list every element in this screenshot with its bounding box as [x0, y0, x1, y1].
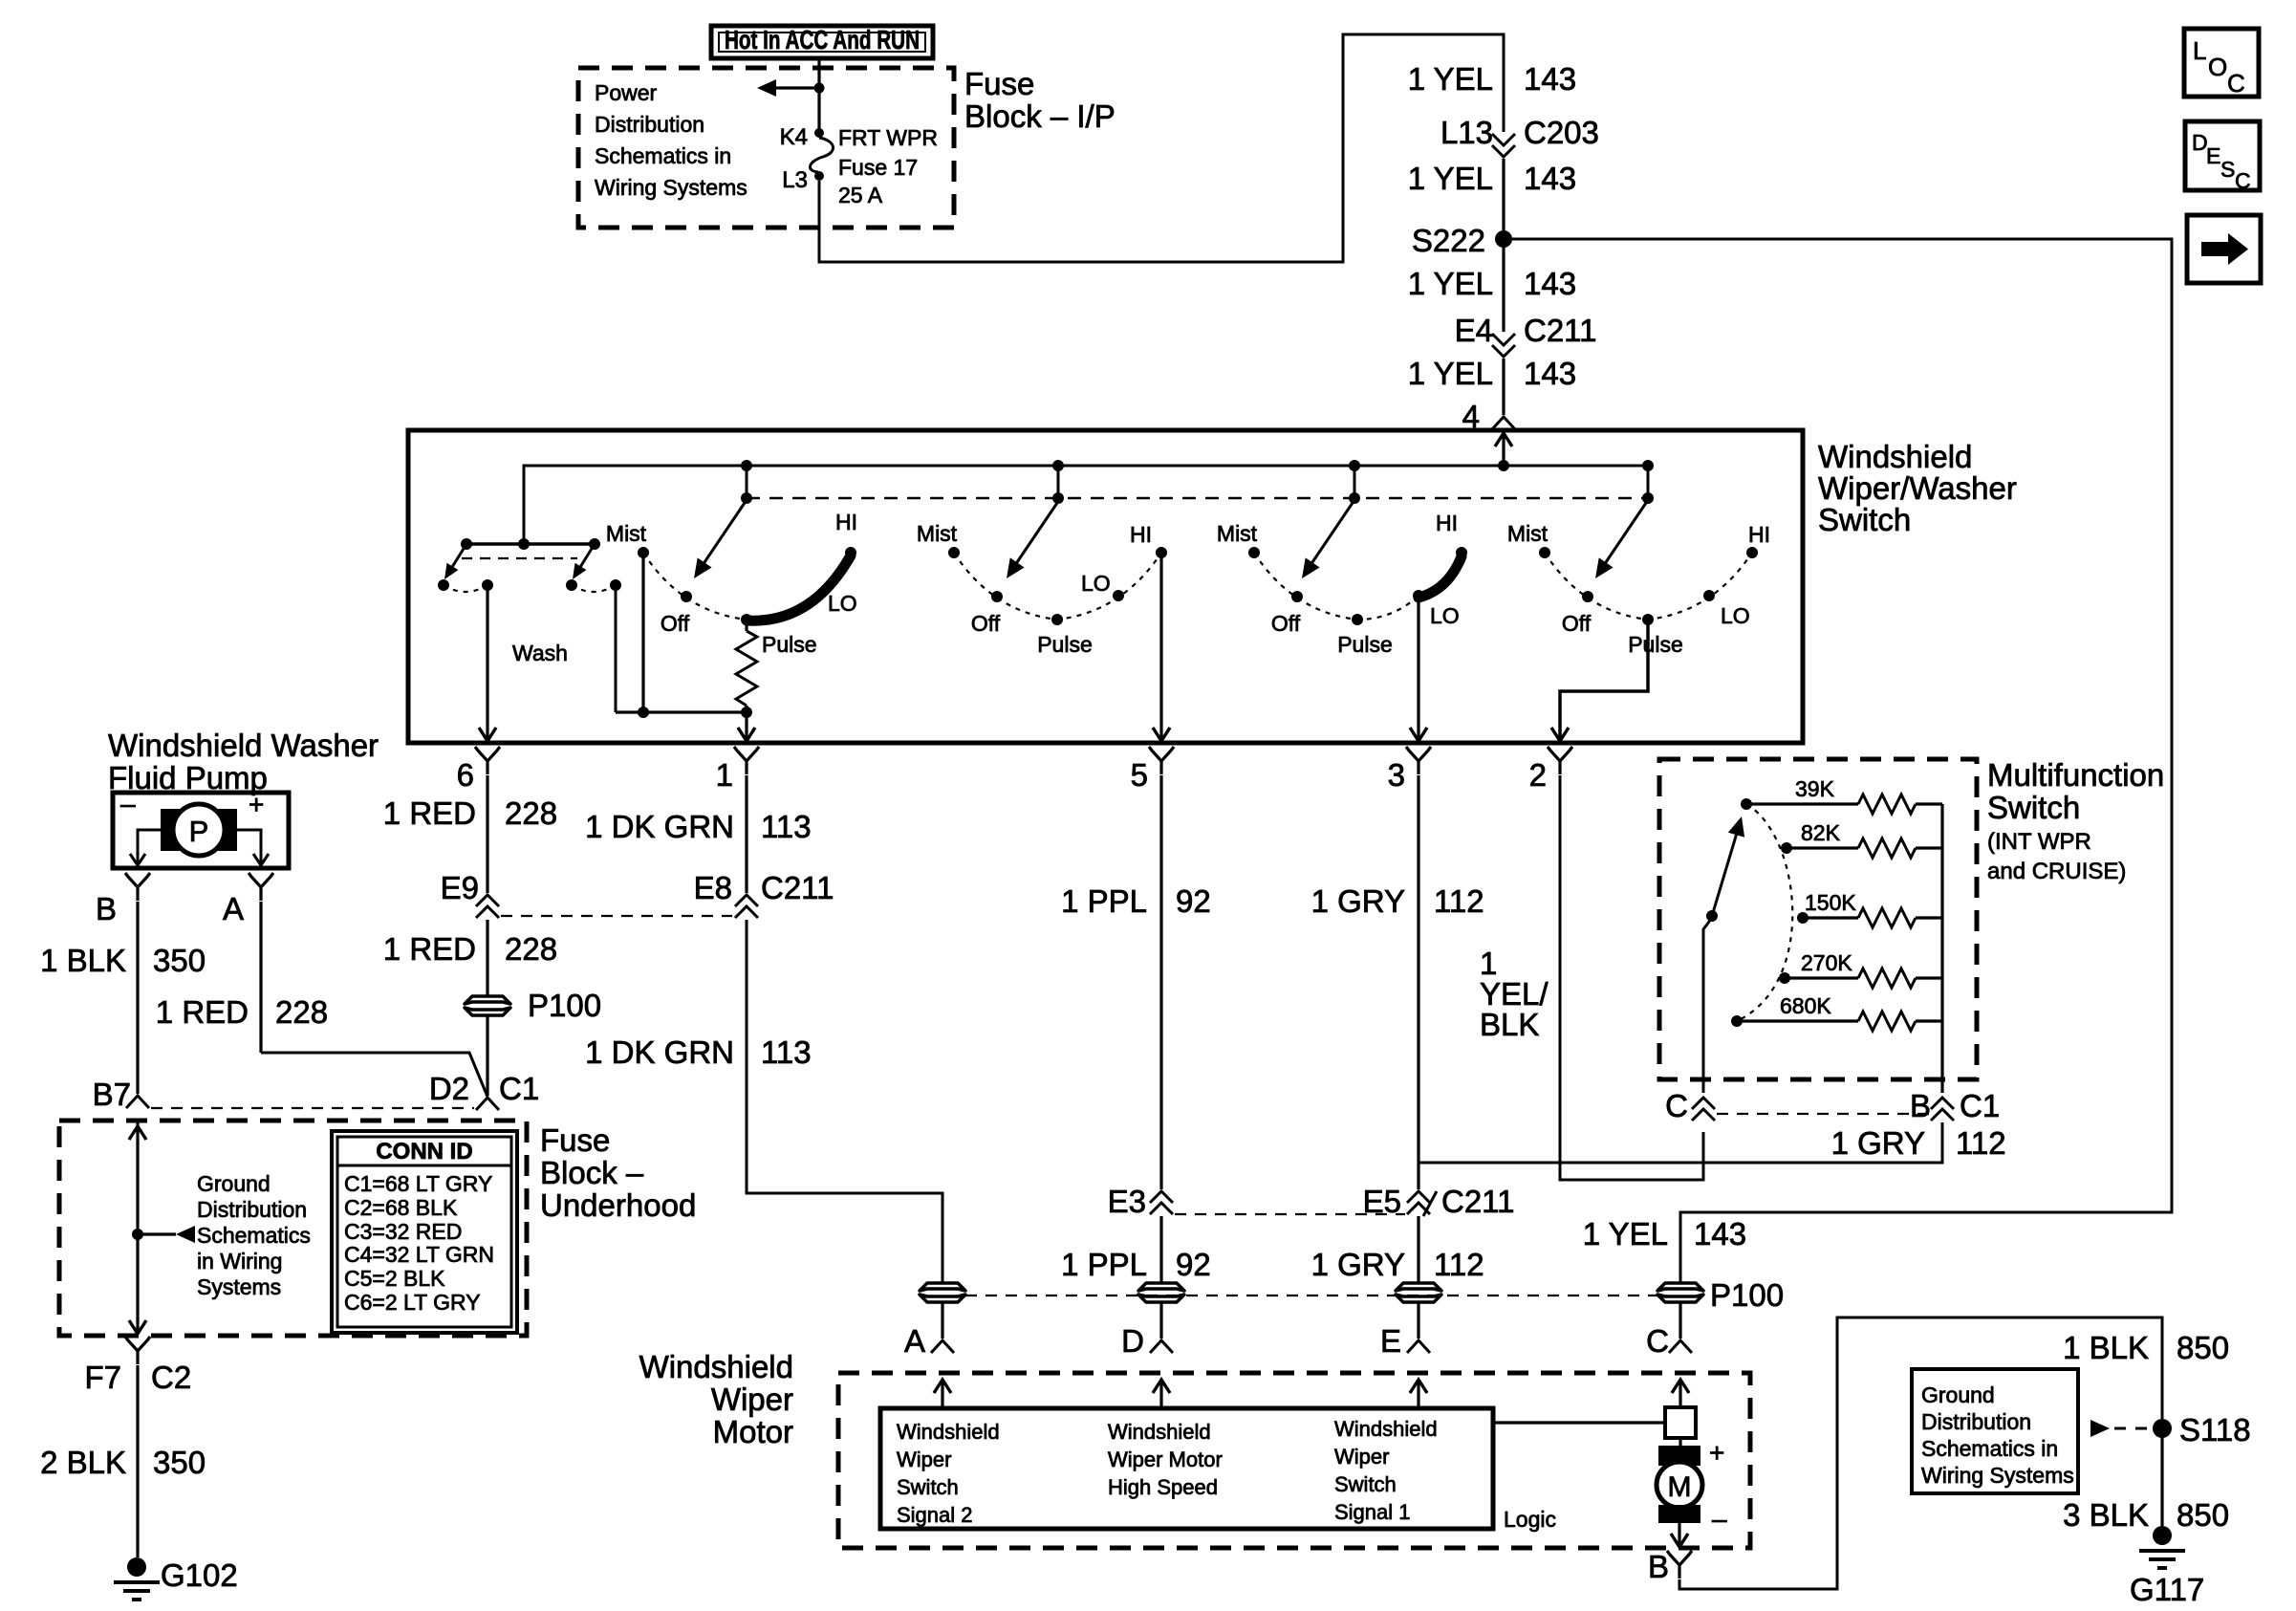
wire pin 6 red lead: [486, 775, 488, 893]
svg-text:P100: P100: [528, 988, 601, 1023]
svg-text:B7: B7: [93, 1077, 131, 1112]
wire pin 2 yel blk: [1560, 775, 1703, 1180]
dashed bulkhead pass-through line P100: [965, 1295, 1657, 1296]
wire E into motor: [1417, 1303, 1419, 1339]
svg-text:Distribution: Distribution: [595, 112, 704, 137]
switch section 1 collector wire: [616, 710, 747, 713]
reference arrow to ground distribution note: [138, 1232, 176, 1235]
svg-text:112: 112: [1434, 1247, 1484, 1282]
svg-text:and CRUISE): and CRUISE): [1987, 859, 2126, 884]
ground G102: [127, 1557, 146, 1577]
wire pump B ground lead: [136, 902, 139, 1094]
svg-text:L: L: [2193, 36, 2206, 65]
svg-text:C: C: [1646, 1323, 1669, 1359]
svg-text:Pulse: Pulse: [1037, 632, 1093, 657]
svg-text:1 PPL: 1 PPL: [1061, 883, 1147, 919]
svg-text:Systems: Systems: [197, 1274, 281, 1299]
wire hot feed into fuse: [817, 58, 820, 130]
svg-text:Mist: Mist: [606, 521, 647, 546]
svg-text:LO: LO: [1721, 603, 1750, 628]
wash switch right arm: [577, 544, 595, 572]
wire 1 YEL segment: [1502, 159, 1505, 230]
svg-text:C: C: [1665, 1088, 1688, 1123]
svg-text:850: 850: [2177, 1330, 2229, 1365]
svg-text:Schematics: Schematics: [197, 1223, 311, 1248]
svg-text:O: O: [2208, 53, 2227, 81]
wire S222 down to C211: [1502, 239, 1505, 332]
svg-text:+: +: [1709, 1438, 1724, 1468]
svg-text:D: D: [1121, 1323, 1144, 1359]
svg-text:C2: C2: [151, 1360, 191, 1395]
svg-text:C2=68 BLK: C2=68 BLK: [344, 1195, 458, 1220]
svg-text:Windshield: Windshield: [1334, 1417, 1438, 1441]
svg-text:E: E: [2206, 143, 2220, 168]
svg-text:High Speed: High Speed: [1108, 1475, 1218, 1499]
svg-text:Wiper/Washer: Wiper/Washer: [1818, 470, 2017, 506]
dashed connector face E3 to E5: [1175, 1213, 1405, 1215]
svg-text:Windshield: Windshield: [639, 1349, 793, 1384]
svg-text:LO: LO: [828, 591, 857, 616]
switch section 1 selector arrow: [701, 500, 747, 568]
svg-text:Distribution: Distribution: [1921, 1409, 2031, 1434]
svg-text:G102: G102: [161, 1557, 238, 1593]
svg-text:1 RED: 1 RED: [156, 994, 249, 1030]
motor logic box: [880, 1408, 1493, 1529]
grommet on motor D wire: [1138, 1283, 1184, 1291]
svg-text:Windshield: Windshield: [1818, 439, 1972, 474]
switch pin 4 end connector: [1492, 417, 1515, 429]
svg-text:2 BLK: 2 BLK: [40, 1445, 126, 1480]
wire red to fuse block C1: [486, 1016, 488, 1096]
wire to ground G102: [136, 1365, 139, 1557]
dashed connector face C to B: [1717, 1113, 1929, 1115]
wire pump A to fuse block connector: [261, 1053, 487, 1097]
svg-text:350: 350: [153, 1445, 206, 1480]
switch section 2 selector arrow: [1013, 500, 1059, 568]
svg-text:Pulse: Pulse: [1337, 632, 1393, 657]
svg-text:Schematics in: Schematics in: [1921, 1436, 2058, 1461]
svg-text:Distribution: Distribution: [197, 1197, 307, 1222]
svg-text:–: –: [120, 789, 136, 818]
wire red to P100: [486, 920, 488, 995]
svg-text:1 RED: 1 RED: [383, 795, 476, 831]
svg-text:1 YEL: 1 YEL: [1408, 61, 1493, 97]
svg-text:Block – I/P: Block – I/P: [964, 98, 1116, 134]
switch section 2 contact arc: [954, 553, 1161, 620]
svg-text:Fuse: Fuse: [540, 1122, 610, 1158]
svg-text:113: 113: [761, 809, 812, 844]
svg-text:E: E: [1380, 1323, 1401, 1359]
wire pin 3 gry upper: [1417, 775, 1419, 1189]
svg-text:HI: HI: [1748, 522, 1770, 547]
svg-text:6: 6: [457, 757, 474, 793]
svg-text:C211: C211: [1441, 1184, 1514, 1219]
switch section 3 wiper thick arc LO to HI: [1419, 556, 1462, 598]
switch section 3 contact arc: [1254, 553, 1419, 620]
svg-text:228: 228: [505, 931, 557, 967]
wire section 3 LO to pin 3: [1417, 596, 1419, 740]
svg-text:1 DK GRN: 1 DK GRN: [585, 809, 734, 844]
svg-text:L13: L13: [1440, 115, 1493, 150]
LOC reference box: [2184, 29, 2259, 97]
svg-text:143: 143: [1694, 1216, 1746, 1252]
svg-text:Windshield Washer: Windshield Washer: [108, 728, 379, 763]
switch internal dashed bus: [747, 497, 1648, 500]
node feed junction: [814, 83, 825, 94]
svg-text:1 YEL: 1 YEL: [1408, 161, 1493, 196]
svg-text:E4: E4: [1455, 313, 1493, 348]
svg-text:Off: Off: [661, 611, 690, 636]
svg-text:E5: E5: [1363, 1184, 1401, 1219]
wire C into motor: [1679, 1303, 1681, 1339]
svg-text:B: B: [96, 891, 117, 926]
svg-text:Off: Off: [1562, 611, 1592, 636]
svg-text:1 GRY: 1 GRY: [1311, 1247, 1405, 1282]
wire S118 to ground G117: [2160, 1438, 2163, 1526]
multifunction resistor bus: [1940, 804, 1943, 1093]
svg-text:Mist: Mist: [1217, 521, 1258, 546]
wash switch left arm: [449, 544, 466, 572]
switch section 1 wiper thick arc LO: [747, 555, 851, 620]
windshield wiper motor dashed box: [838, 1373, 1750, 1548]
svg-text:Wiring Systems: Wiring Systems: [1921, 1463, 2074, 1488]
svg-text:Signal 2: Signal 2: [897, 1503, 973, 1527]
svg-text:C3=32 RED: C3=32 RED: [344, 1219, 462, 1244]
switch pin 2 connector: [1548, 747, 1572, 774]
svg-text:C211: C211: [1524, 313, 1596, 348]
svg-text:1 YEL: 1 YEL: [1408, 266, 1493, 301]
svg-text:C: C: [2227, 69, 2245, 98]
svg-text:Fuse 17: Fuse 17: [838, 155, 918, 180]
reference dashed arrow to S118: [2090, 1420, 2110, 1437]
switch pin 5 connector: [1149, 747, 1174, 774]
svg-text:Wiring Systems: Wiring Systems: [595, 175, 747, 200]
svg-text:1 BLK: 1 BLK: [2063, 1330, 2149, 1365]
svg-text:680K: 680K: [1780, 993, 1831, 1018]
svg-text:E3: E3: [1108, 1184, 1146, 1219]
svg-text:Switch: Switch: [1334, 1472, 1397, 1496]
wire S222 to right edge and down to wiper motor C: [1512, 239, 2172, 1284]
wire wash right contact down: [615, 585, 617, 712]
windshield wiper washer switch box: [408, 430, 1803, 743]
wash contact dots: [438, 579, 449, 591]
svg-text:850: 850: [2177, 1497, 2229, 1533]
wire multifunction B gry: [1419, 1122, 1942, 1163]
svg-text:C211: C211: [761, 870, 834, 905]
svg-text:C1: C1: [1960, 1088, 2000, 1123]
svg-text:92: 92: [1176, 1247, 1211, 1282]
svg-text:Wiper: Wiper: [711, 1382, 793, 1417]
svg-text:D2: D2: [429, 1071, 469, 1106]
dashed connector face B7 to C1: [151, 1107, 474, 1109]
svg-text:Switch: Switch: [1987, 790, 2080, 825]
ground G117: [2153, 1526, 2172, 1545]
reference box Ground Distribution bottom right: [1912, 1369, 2078, 1493]
svg-text:C6=2 LT GRY: C6=2 LT GRY: [344, 1290, 481, 1315]
svg-text:Switch: Switch: [1818, 502, 1911, 537]
wash switch contacts: [466, 542, 595, 546]
svg-text:Ground: Ground: [1921, 1382, 1995, 1407]
svg-text:25 A: 25 A: [838, 183, 883, 207]
svg-text:228: 228: [275, 994, 328, 1030]
switch pin 1 connector: [734, 747, 759, 774]
svg-text:Schematics in: Schematics in: [595, 143, 731, 168]
svg-text:LO: LO: [1081, 571, 1111, 596]
svg-text:CONN ID: CONN ID: [376, 1139, 472, 1165]
grommet on motor A wire: [920, 1283, 965, 1291]
svg-text:L3: L3: [782, 167, 808, 193]
wash contact dashed arcs: [444, 585, 487, 592]
wire dk grn to motor A: [747, 920, 942, 1282]
pump pin A connector: [249, 873, 273, 901]
svg-text:Windshield: Windshield: [1108, 1420, 1211, 1444]
fuse block underhood dashed box: [59, 1121, 527, 1336]
resistor 680K: [1731, 1015, 1743, 1027]
splice S222: [1495, 230, 1512, 248]
svg-text:Windshield: Windshield: [897, 1420, 1000, 1444]
wire pump A feed lead: [259, 902, 262, 1053]
svg-text:A: A: [223, 891, 244, 926]
svg-text:228: 228: [505, 795, 557, 831]
fuse block I/P dashed box: [578, 68, 954, 228]
motor brush square: [1493, 1421, 1665, 1424]
motor pin B connector: [1667, 1551, 1692, 1578]
svg-text:112: 112: [1434, 883, 1484, 919]
wire motor minus to pin B: [1678, 1523, 1680, 1546]
svg-text:2: 2: [1529, 757, 1547, 793]
svg-text:–: –: [1712, 1504, 1727, 1534]
svg-text:Off: Off: [1271, 611, 1301, 636]
wire section 4 pulse to pin 2: [1560, 620, 1648, 740]
wire D into motor: [1159, 1303, 1162, 1339]
svg-text:143: 143: [1524, 161, 1576, 196]
svg-text:C5=2 BLK: C5=2 BLK: [344, 1266, 445, 1291]
wire motor B to ground splice: [1679, 1317, 2162, 1589]
svg-text:A: A: [904, 1323, 925, 1359]
svg-text:Hot In ACC And RUN: Hot In ACC And RUN: [725, 25, 920, 54]
node ground reference junction: [132, 1229, 143, 1240]
svg-text:G117: G117: [2130, 1572, 2204, 1607]
svg-text:F7: F7: [84, 1360, 121, 1395]
svg-text:3 BLK: 3 BLK: [2063, 1497, 2149, 1533]
motor M symbol: [1679, 1438, 1681, 1448]
switch section 1 mist wire: [641, 553, 644, 712]
svg-text:B: B: [1648, 1549, 1669, 1584]
svg-text:K4: K4: [780, 124, 808, 150]
svg-text:Pulse: Pulse: [1628, 632, 1683, 657]
svg-text:P: P: [189, 815, 209, 848]
grommet P100 red wire: [465, 996, 510, 1004]
switch section 1 pulse resistor: [745, 620, 747, 631]
svg-text:C203: C203: [1524, 115, 1599, 150]
svg-text:1 YEL: 1 YEL: [1583, 1216, 1668, 1252]
svg-text:1 GRY: 1 GRY: [1311, 883, 1405, 919]
wire gry to motor E: [1417, 1216, 1419, 1282]
grommet on motor E wire: [1396, 1283, 1441, 1291]
connector table CONN ID: [332, 1131, 517, 1333]
multifunction switch dashed box: [1659, 759, 1977, 1079]
svg-text:C: C: [2235, 168, 2251, 193]
connector C2 pin F7: [125, 1337, 150, 1364]
DESC reference box: [2185, 121, 2260, 190]
fuse FRT WPR Fuse 17 25A: [814, 128, 824, 138]
wire ground lead through fuse block: [136, 1121, 139, 1333]
switch section 1 contact arc: [643, 553, 747, 620]
svg-text:143: 143: [1524, 356, 1576, 391]
svg-text:Fuse: Fuse: [964, 66, 1034, 101]
wire pin 1 dk grn upper: [745, 775, 747, 893]
svg-text:HI: HI: [1130, 522, 1152, 547]
wire fuse output to switch feed: [819, 34, 1504, 262]
svg-text:S118: S118: [2179, 1412, 2251, 1448]
resistor 150K: [1797, 912, 1809, 924]
svg-text:Ground: Ground: [197, 1171, 271, 1196]
svg-text:(INT WPR: (INT WPR: [1987, 829, 2091, 855]
svg-text:1 PPL: 1 PPL: [1061, 1247, 1147, 1282]
svg-text:Motor: Motor: [713, 1414, 793, 1449]
svg-text:Wash: Wash: [512, 641, 568, 665]
svg-text:C4=32 LT GRN: C4=32 LT GRN: [344, 1242, 494, 1267]
switch internal top bus: [524, 466, 1648, 544]
svg-text:Wiper Motor: Wiper Motor: [1108, 1448, 1223, 1471]
svg-text:1 DK GRN: 1 DK GRN: [585, 1034, 734, 1070]
resistor 82K: [1781, 842, 1792, 854]
svg-text:C1=68 LT GRY: C1=68 LT GRY: [344, 1171, 492, 1196]
svg-text:Underhood: Underhood: [540, 1187, 696, 1223]
svg-text:+: +: [249, 790, 264, 819]
svg-text:3: 3: [1388, 757, 1405, 793]
svg-text:Pulse: Pulse: [762, 632, 817, 657]
svg-text:Mist: Mist: [917, 521, 958, 546]
wire pin 5 ppl upper: [1159, 775, 1162, 1189]
svg-text:82K: 82K: [1801, 820, 1841, 845]
wire ppl to motor D: [1159, 1216, 1162, 1282]
washer pump internal wires: [138, 830, 161, 864]
svg-text:1 RED: 1 RED: [383, 931, 476, 967]
multifunction contact dashed arc: [1737, 804, 1792, 1021]
svg-text:270K: 270K: [1801, 950, 1852, 975]
svg-text:113: 113: [761, 1034, 812, 1070]
switch section 4 selector arrow: [1602, 500, 1648, 568]
svg-text:112: 112: [1956, 1125, 2006, 1161]
svg-text:1 BLK: 1 BLK: [40, 943, 126, 978]
svg-text:HI: HI: [835, 510, 857, 534]
switch feed entry arrow pin 4: [1502, 433, 1505, 466]
svg-text:Off: Off: [971, 611, 1001, 636]
resistor 270K: [1779, 972, 1790, 984]
continuation arrow box: [2187, 215, 2261, 283]
svg-text:1 GRY: 1 GRY: [1831, 1125, 1925, 1161]
switch section 4 contact arc: [1545, 553, 1752, 620]
svg-text:FRT WPR: FRT WPR: [838, 125, 938, 150]
svg-text:Wiper: Wiper: [1334, 1445, 1389, 1469]
switch pin 6 connector: [475, 747, 500, 774]
svg-text:350: 350: [153, 943, 206, 978]
svg-text:S: S: [2220, 157, 2235, 182]
svg-text:E9: E9: [441, 870, 479, 905]
svg-text:LO: LO: [1430, 603, 1460, 628]
svg-text:143: 143: [1524, 61, 1576, 97]
svg-text:in Wiring: in Wiring: [197, 1249, 282, 1274]
svg-text:Logic: Logic: [1504, 1507, 1556, 1532]
svg-text:143: 143: [1524, 266, 1576, 301]
wire to switch pin 4: [1502, 359, 1505, 415]
svg-text:150K: 150K: [1805, 890, 1856, 915]
svg-text:Mist: Mist: [1507, 521, 1549, 546]
svg-text:P100: P100: [1710, 1277, 1784, 1313]
wire A into motor: [941, 1303, 943, 1339]
svg-text:Power: Power: [595, 80, 658, 105]
svg-text:1 YEL: 1 YEL: [1408, 356, 1493, 391]
svg-text:S222: S222: [1412, 223, 1485, 258]
svg-text:BLK: BLK: [1480, 1007, 1539, 1042]
grommet P100 on motor C wire: [1657, 1283, 1703, 1291]
svg-text:92: 92: [1176, 883, 1211, 919]
pump pin B connector: [125, 873, 150, 901]
wire section 2 HI to pin 5: [1159, 553, 1162, 740]
wire wash to pin 6: [486, 585, 488, 740]
svg-text:1: 1: [716, 757, 733, 793]
wash switch coupling dashed: [462, 557, 577, 559]
svg-text:Wiper: Wiper: [897, 1448, 951, 1471]
multifunction wiper arm: [1703, 918, 1712, 1093]
washer pump box: [113, 793, 289, 868]
wire section 1 to pin 1: [745, 712, 747, 740]
svg-text:Signal 1: Signal 1: [1334, 1500, 1411, 1524]
reference arrow to power distribution: [774, 86, 819, 89]
resistor 39K: [1741, 798, 1752, 810]
power feed box Hot In ACC And RUN: [711, 26, 933, 58]
svg-text:Multifunction: Multifunction: [1987, 757, 2164, 793]
motor input arrows: [941, 1380, 943, 1408]
svg-text:M: M: [1668, 1471, 1692, 1503]
svg-text:Switch: Switch: [897, 1475, 959, 1499]
svg-text:B: B: [1910, 1088, 1931, 1123]
switch section 3 selector arrow: [1309, 500, 1354, 568]
svg-text:Block –: Block –: [540, 1155, 644, 1190]
dashed connector face E9 to E8: [501, 915, 732, 917]
svg-text:E8: E8: [694, 870, 732, 905]
svg-text:39K: 39K: [1795, 776, 1835, 801]
switch pin 3 connector: [1406, 747, 1431, 774]
svg-text:C1: C1: [499, 1071, 539, 1106]
svg-text:HI: HI: [1436, 511, 1458, 535]
svg-text:5: 5: [1131, 757, 1148, 793]
splice S118: [2153, 1419, 2172, 1438]
